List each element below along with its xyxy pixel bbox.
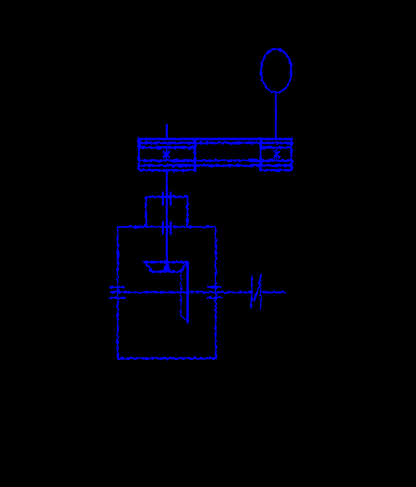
- bearing seal bars lower: [163, 222, 171, 234]
- liquid level / side pipe line: [111, 291, 285, 293]
- belt top run: [139, 138, 292, 141]
- pulley P2 (right, driver): [261, 139, 292, 171]
- wall flange marks right: [207, 287, 221, 298]
- impeller disc (trapezoid): [145, 262, 188, 272]
- blade bottom edge: [181, 316, 187, 323]
- blade back edge (hidden, dashed): [180, 272, 182, 315]
- belt (two runs across both pulleys): [139, 143, 292, 166]
- agitator shaft (main vertical): [166, 170, 168, 266]
- tank bottom: [118, 357, 216, 359]
- bearing seal bars upper: [163, 192, 171, 205]
- center mark pulley P1: [164, 150, 170, 159]
- pipe break symbol: [251, 275, 261, 311]
- motor M1: [261, 49, 291, 93]
- bearing housing (neck on tank top): [146, 197, 187, 227]
- motor shaft wire: [275, 93, 277, 138]
- agitator shaft (upper stub): [166, 125, 168, 139]
- tank T1: [118, 227, 216, 359]
- impeller hub cone: [164, 263, 171, 271]
- wall flange marks left: [111, 287, 125, 298]
- blade front edge: [186, 262, 188, 322]
- center mark pulley P2: [274, 150, 280, 159]
- pulley P1 (left, driven): [139, 139, 195, 171]
